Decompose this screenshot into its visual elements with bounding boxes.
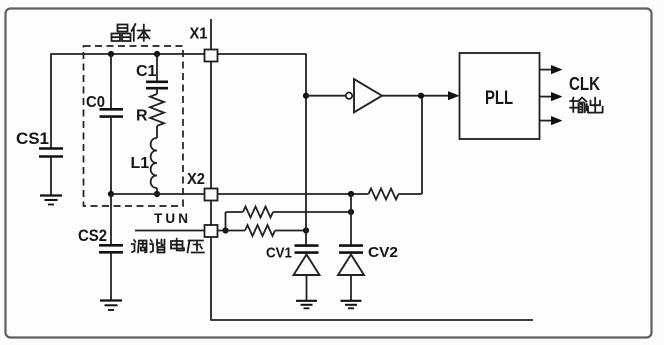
wire: CV2 column — [350, 194, 352, 245]
ground of CS2 — [100, 299, 122, 301]
output arrow 3 — [540, 120, 553, 122]
wire: top net from CS1 corner to X1 — [51, 53, 205, 149]
output arrow 2 — [540, 96, 553, 98]
wire: X2 net to right — [218, 193, 369, 195]
junction dot TUN net — [222, 227, 228, 233]
svg-text:TUN: TUN — [154, 211, 188, 226]
wire: TUN to bottom rail — [210, 237, 533, 320]
inverter U1 — [354, 79, 382, 112]
terminal X1 — [205, 50, 218, 62]
PLL U2 — [460, 53, 540, 139]
terminal TUN — [205, 225, 218, 237]
svg-text:R: R — [136, 108, 148, 125]
junction dot bottom of C0 — [108, 191, 114, 197]
inductor L1 — [151, 126, 157, 188]
wire: TUN stub up to upper resistor — [218, 212, 244, 231]
output arrow 1 — [540, 69, 553, 71]
junction dot X2 net at CV2 column — [348, 191, 354, 197]
svg-text:L1: L1 — [131, 155, 150, 172]
junction dot buffer output — [418, 93, 424, 99]
varactor CV2 — [339, 246, 363, 253]
wire: stub above X1 — [210, 19, 212, 50]
label 晶体 — [112, 24, 151, 41]
svg-text:CS2: CS2 — [78, 226, 107, 245]
junction dot upper resistor at CV2 column — [348, 209, 354, 215]
wire: buffer output to PLL — [382, 95, 450, 97]
crystal dashed box — [84, 46, 184, 206]
resistor feedback (X2 net to buffer output) — [369, 189, 399, 200]
junction dot lower resistor at CV1 column — [303, 227, 309, 233]
junction dot buffer input — [303, 93, 309, 99]
svg-text:CV2: CV2 — [368, 244, 398, 261]
terminal X2 — [205, 189, 218, 201]
label 调谐电压 — [132, 239, 205, 253]
capacitor CS2 — [110, 194, 112, 245]
junction dot top of C1 — [154, 51, 160, 57]
capacitor CS1 — [39, 149, 63, 157]
ground of CS1 — [40, 194, 62, 196]
svg-text:C1: C1 — [136, 63, 157, 80]
junction dot top-left of C0 — [108, 51, 114, 57]
wire: X2 to TUN — [210, 201, 212, 226]
wire: buffer input column down to CV1 — [305, 96, 307, 245]
junction dot bottom of L1 — [154, 191, 160, 197]
varactor CV1 — [295, 246, 319, 253]
svg-text:CLK: CLK — [569, 74, 600, 94]
wire: X1 to corner down to buffer input — [218, 53, 307, 96]
wire: bottom net inside crystal box to X2 — [111, 193, 205, 195]
capacitor C1 — [156, 54, 158, 81]
svg-text:CV1: CV1 — [266, 245, 292, 262]
capacitor C0 — [110, 54, 112, 109]
resistor lower (TUN to CV1) — [226, 230, 246, 232]
ground of CV1 — [296, 300, 317, 302]
svg-text:CS1: CS1 — [16, 129, 49, 148]
ground of CV2 — [341, 300, 362, 302]
wire: main vertical X1 to X2 — [210, 62, 212, 189]
svg-text:C0: C0 — [86, 94, 105, 111]
arrowhead into PLL — [448, 91, 460, 100]
resistor upper (TUN to CV2) — [243, 207, 273, 218]
svg-text:PLL: PLL — [485, 88, 513, 109]
inverter U1 input bubble — [346, 93, 352, 99]
svg-text:X1: X1 — [190, 26, 208, 43]
wire: buffer input — [306, 95, 346, 97]
resistor R — [150, 88, 164, 126]
wire: TUN lead-in line — [135, 230, 205, 232]
label 输出 — [570, 98, 603, 113]
svg-text:X2: X2 — [187, 171, 205, 188]
